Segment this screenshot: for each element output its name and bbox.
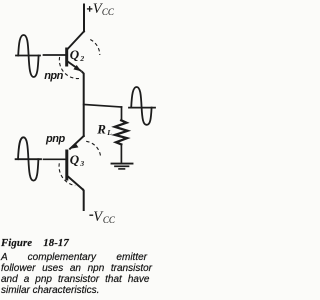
wire: Q2 base [44,54,66,56]
svg-text:pnp: pnp [45,133,65,145]
caption line 1 [1,252,147,263]
transistor Q3 (pnp) collector [67,176,83,190]
svg-text:Q: Q [70,152,80,167]
svg-text:CC: CC [103,215,116,225]
wire: Q3 collector rail to -VCC [82,190,85,211]
caption line 3 [1,274,150,285]
ground symbol [112,163,133,165]
dashed arc right of Q2 [90,40,100,56]
label -VCC [89,214,93,216]
svg-text:Q: Q [70,47,80,62]
dashed arc below-left of Q2 [59,57,79,79]
wire: resistor to ground stem [120,144,122,162]
svg-text:CC: CC [102,7,115,17]
svg-text:3: 3 [79,159,84,168]
wire: Q3 base [44,158,66,160]
transistor Q2 (npn) emitter with arrow [67,61,80,70]
svg-text:L: L [106,128,112,137]
caption line 2 [1,263,152,274]
wire: emitter rail from Q2 down through output node to Q3 [82,72,83,136]
transistor Q2 (npn) collector [67,31,84,49]
svg-text:2: 2 [79,54,84,63]
transistor Q3 (pnp) emitter with arrow into base [70,136,84,149]
transistor Q2 (npn) base bar [65,48,68,67]
input sine wave symbol (lower, pnp input) [16,137,41,180]
resistor RL zigzag [115,120,128,144]
dashed arc right of Q3 [86,141,100,157]
input sine wave symbol (upper, npn input) [16,35,40,77]
wire: drop to load resistor [121,107,123,121]
wire: output node horizontal [84,105,122,108]
wire: +VCC rail top [83,5,85,32]
dashed arc below-left of Q3 [59,163,75,185]
transistor Q3 (pnp) base bar [65,150,68,181]
svg-text:npn: npn [44,70,63,82]
svg-text:R: R [96,121,106,136]
output sine wave symbol (across RL) [129,87,155,125]
caption line 4 [1,285,152,296]
caption: figure number [1,237,69,249]
label +VCC [87,6,93,12]
